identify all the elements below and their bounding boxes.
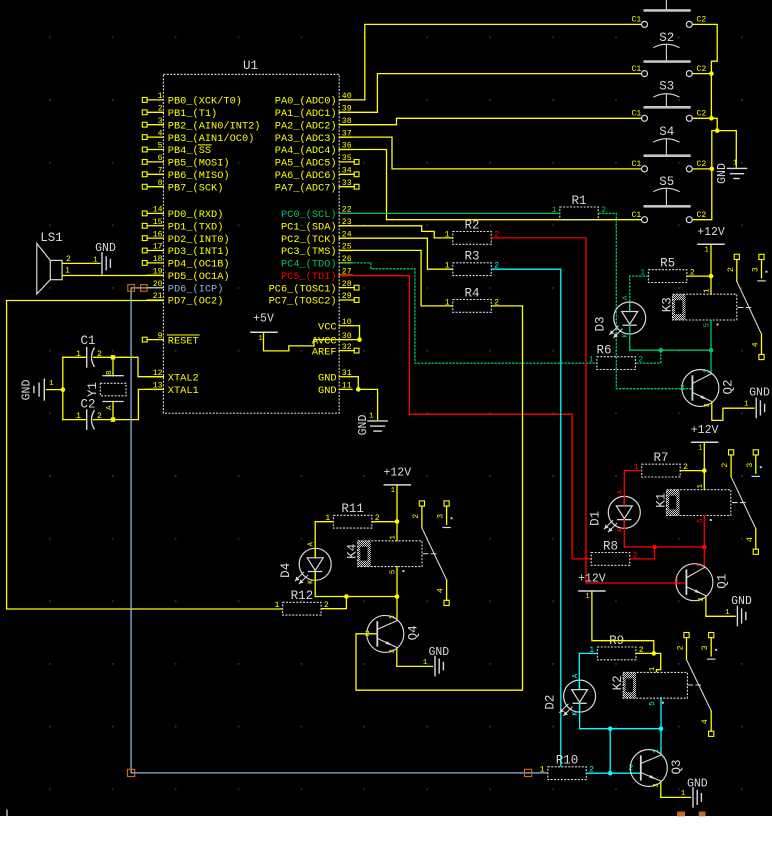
LED D1 bbox=[588, 489, 640, 532]
svg-text:1: 1 bbox=[540, 766, 545, 775]
svg-text:D4: D4 bbox=[279, 563, 293, 578]
wire D4 cathode to Q4 bbox=[315, 572, 399, 620]
U1 pin 24 PC2 bbox=[281, 230, 352, 246]
svg-text:2: 2 bbox=[412, 514, 421, 519]
wire R7 to D1 anode bbox=[624, 471, 641, 506]
svg-text:4: 4 bbox=[701, 719, 710, 724]
selection marker 3 bbox=[128, 769, 135, 776]
white status band bbox=[0, 816, 772, 847]
svg-text:R7: R7 bbox=[653, 451, 668, 465]
selection marker 2 bbox=[141, 285, 148, 292]
svg-text:1: 1 bbox=[158, 92, 163, 101]
resistor R9 bbox=[589, 634, 643, 660]
U1 pin 11 GND bbox=[318, 382, 352, 398]
svg-text:PA7_(ADC7): PA7_(ADC7) bbox=[275, 182, 337, 194]
svg-text:14: 14 bbox=[153, 206, 163, 215]
ground at Q4 bbox=[423, 646, 449, 676]
wire Q4 emitter to ground bbox=[397, 649, 433, 667]
svg-text:S3: S3 bbox=[659, 80, 674, 94]
svg-text:3: 3 bbox=[746, 463, 755, 468]
resistor R3 bbox=[445, 250, 499, 276]
svg-text:1: 1 bbox=[583, 551, 588, 560]
svg-text:2: 2 bbox=[674, 578, 679, 587]
U1 pin 26 PC4 bbox=[281, 255, 352, 271]
svg-text:PD2_(INT0): PD2_(INT0) bbox=[168, 234, 230, 246]
svg-text:Q4: Q4 bbox=[406, 625, 420, 640]
wire PC0 SCL to R1 bbox=[339, 212, 560, 214]
svg-text:3: 3 bbox=[752, 267, 761, 272]
U1 pin 35 PA5 bbox=[275, 154, 359, 170]
wire switch common rail bbox=[692, 24, 719, 219]
svg-text:PA1_(ADC1): PA1_(ADC1) bbox=[275, 108, 337, 120]
svg-text:2: 2 bbox=[365, 630, 370, 639]
U1 pin 30 AVCC bbox=[312, 332, 352, 348]
svg-text:+12V: +12V bbox=[383, 466, 411, 479]
svg-text:C1: C1 bbox=[631, 65, 641, 74]
svg-text:R1: R1 bbox=[572, 194, 587, 208]
wire Q2 emitter to ground bbox=[712, 403, 755, 421]
svg-text:Q2: Q2 bbox=[721, 379, 735, 394]
relay K4 contacts bbox=[412, 501, 453, 606]
U1 pin 19 PD5 bbox=[147, 267, 229, 283]
IC U1 body bbox=[163, 59, 339, 413]
resistor R8 bbox=[583, 539, 637, 565]
svg-text:GND: GND bbox=[687, 778, 708, 791]
svg-text:31: 31 bbox=[342, 369, 352, 378]
transistor Q4 bbox=[365, 615, 420, 653]
+12V power port K3 is above (shared) bbox=[0, 0, 1, 1]
relay K3 contacts bbox=[727, 254, 768, 359]
U1 pin 34 PA6 bbox=[275, 167, 359, 183]
svg-text:R6: R6 bbox=[596, 344, 611, 358]
svg-text:GND: GND bbox=[21, 380, 34, 401]
svg-text:6: 6 bbox=[158, 154, 163, 163]
svg-text:33: 33 bbox=[342, 179, 352, 188]
U1 pin 40 PA0 bbox=[275, 92, 352, 108]
svg-text:PD7_(OC2): PD7_(OC2) bbox=[168, 296, 224, 308]
svg-text:R10: R10 bbox=[556, 754, 579, 768]
svg-text:1: 1 bbox=[698, 445, 702, 453]
wire PA3 to S4 bbox=[339, 137, 641, 169]
svg-text:1: 1 bbox=[733, 159, 737, 167]
svg-text:1: 1 bbox=[65, 266, 70, 275]
svg-text:C2: C2 bbox=[697, 211, 707, 220]
svg-text:AREF: AREF bbox=[312, 346, 337, 358]
wire +5V to VCC/AVCC bbox=[264, 326, 362, 351]
wire PA1 to S2 bbox=[339, 74, 641, 113]
wire PC4 TDO to R6 bbox=[339, 263, 597, 363]
U1 pin 36 PA4 bbox=[275, 142, 352, 158]
wire R4 to Q4 base bbox=[356, 306, 523, 690]
U1 pin 39 PA1 bbox=[275, 105, 352, 121]
svg-text:1: 1 bbox=[259, 335, 263, 343]
svg-text:LS1: LS1 bbox=[40, 231, 63, 245]
svg-text:Y1: Y1 bbox=[86, 382, 100, 397]
svg-text:5: 5 bbox=[697, 518, 705, 523]
speaker LS1 bbox=[37, 231, 71, 294]
svg-text:GND: GND bbox=[318, 385, 337, 397]
svg-text:1: 1 bbox=[681, 790, 686, 798]
svg-text:R4: R4 bbox=[465, 286, 480, 300]
wire +12V to R7/K1 bbox=[680, 442, 706, 473]
svg-text:R2: R2 bbox=[465, 218, 480, 232]
svg-text:4: 4 bbox=[752, 342, 761, 347]
svg-text:C2: C2 bbox=[697, 65, 707, 74]
U1 pin 27 PC5 bbox=[281, 267, 352, 283]
transistor Q2 bbox=[680, 369, 735, 407]
U1 pin 31 GND bbox=[318, 369, 352, 385]
svg-text:PA0_(ADC0): PA0_(ADC0) bbox=[275, 96, 337, 108]
svg-text:D1: D1 bbox=[588, 511, 602, 526]
capacitor C1 bbox=[76, 334, 102, 367]
U1 pin 28 PC6 bbox=[269, 280, 359, 296]
svg-text:3: 3 bbox=[389, 649, 397, 653]
wire R1 to Q2 base bbox=[598, 213, 692, 388]
svg-text:34: 34 bbox=[342, 167, 352, 176]
wire D3 cathode to Q2 bbox=[630, 325, 714, 373]
U1 pin 3 PB2 bbox=[142, 117, 260, 132]
resistor R11 bbox=[325, 502, 379, 528]
ground at LS1 bbox=[93, 242, 116, 274]
svg-text:VCC: VCC bbox=[318, 321, 337, 333]
relay K3 bbox=[661, 288, 737, 328]
wire R11 to D4 anode bbox=[315, 522, 333, 558]
svg-text:4: 4 bbox=[746, 537, 755, 542]
svg-text:S5: S5 bbox=[659, 175, 674, 189]
svg-text:PC2_(TCK): PC2_(TCK) bbox=[281, 234, 337, 246]
svg-text:2: 2 bbox=[158, 105, 163, 114]
svg-text:D3: D3 bbox=[594, 316, 608, 331]
U1 pin 18 PD4 bbox=[142, 255, 229, 271]
svg-text:1: 1 bbox=[725, 609, 730, 617]
svg-text:+12V: +12V bbox=[697, 226, 725, 239]
svg-text:5: 5 bbox=[704, 323, 712, 328]
ground below U1 bbox=[357, 413, 387, 436]
svg-text:3: 3 bbox=[158, 117, 163, 126]
wire K2 coil bbox=[654, 653, 661, 728]
svg-text:5: 5 bbox=[649, 701, 657, 706]
wire K1 coil bbox=[703, 471, 705, 547]
svg-text:PB0_(XCK/T0): PB0_(XCK/T0) bbox=[168, 96, 242, 108]
svg-text:5: 5 bbox=[390, 569, 398, 574]
svg-text:PD0_(RXD): PD0_(RXD) bbox=[168, 209, 224, 221]
wire R9 to D2 anode bbox=[579, 653, 597, 689]
svg-text:GND: GND bbox=[95, 242, 116, 255]
wire PA0 to S1 bbox=[339, 24, 641, 100]
svg-text:GND: GND bbox=[749, 386, 770, 399]
svg-text:GND: GND bbox=[731, 595, 752, 608]
U1 pin 33 PA7 bbox=[275, 179, 359, 195]
U1 pin 10 VCC bbox=[318, 318, 352, 334]
svg-text:28: 28 bbox=[342, 280, 352, 289]
U1 pin 29 PC7 bbox=[269, 292, 359, 308]
switch S3 bbox=[631, 80, 706, 122]
capacitor C2 bbox=[76, 398, 102, 430]
svg-text:PB2_(AIN0/INT2): PB2_(AIN0/INT2) bbox=[168, 120, 261, 132]
svg-text:2: 2 bbox=[680, 384, 685, 393]
U1 pin 8 PB7 bbox=[142, 179, 223, 195]
ground at crystal bbox=[21, 379, 55, 400]
svg-text:1: 1 bbox=[49, 380, 54, 388]
wire K3 coil bbox=[710, 276, 712, 350]
svg-text:1: 1 bbox=[390, 535, 398, 540]
svg-text:2: 2 bbox=[677, 645, 686, 650]
wire PC5 TDI to R8 bbox=[339, 276, 591, 559]
wire PD6 ICP net (pale blue) bbox=[131, 288, 548, 773]
svg-text:C1: C1 bbox=[631, 16, 641, 25]
svg-text:3: 3 bbox=[437, 514, 446, 519]
U1 pin 32 AREF bbox=[312, 343, 359, 359]
svg-text:GND: GND bbox=[428, 646, 449, 659]
wire R3 to R10 bbox=[491, 269, 561, 766]
resistor R2 bbox=[445, 218, 499, 244]
svg-text:+12V: +12V bbox=[578, 573, 606, 586]
svg-text:XTAL1: XTAL1 bbox=[168, 385, 199, 397]
svg-text:4: 4 bbox=[437, 588, 446, 593]
switch S2 bbox=[631, 31, 706, 77]
svg-text:21: 21 bbox=[153, 292, 163, 301]
U1 pin 37 PA3 bbox=[275, 129, 352, 145]
wire LS1 pin1 to U1 pin19 bbox=[62, 275, 163, 277]
U1 pin 1 PB0 bbox=[142, 92, 242, 108]
svg-text:1: 1 bbox=[274, 601, 279, 610]
svg-text:PB4_(SS: PB4_(SS bbox=[168, 145, 211, 157]
U1 pin 5 PB4 bbox=[142, 142, 211, 158]
wire U1 GND pins to ground bbox=[352, 377, 378, 421]
svg-text:PD4_(OC1B): PD4_(OC1B) bbox=[168, 259, 230, 271]
svg-text:Q3: Q3 bbox=[670, 759, 684, 774]
svg-text:U1: U1 bbox=[243, 59, 258, 73]
svg-text:8: 8 bbox=[158, 179, 163, 188]
svg-text:PA6_(ADC6): PA6_(ADC6) bbox=[275, 170, 337, 182]
wire R10 to Q3 base bbox=[586, 771, 641, 776]
relay K2 bbox=[611, 666, 687, 706]
resistor R12 bbox=[274, 589, 328, 615]
selection marker 1 bbox=[128, 285, 135, 292]
svg-text:PA2_(ADC2): PA2_(ADC2) bbox=[275, 120, 337, 132]
wire +12V to R11/K4 bbox=[372, 485, 399, 524]
svg-text:C1: C1 bbox=[631, 160, 641, 169]
svg-text:3: 3 bbox=[704, 403, 712, 407]
wire +12V to R5/K3 bbox=[687, 245, 713, 278]
svg-text:1: 1 bbox=[703, 369, 711, 373]
svg-text:1: 1 bbox=[589, 356, 594, 365]
U1 pin 21 PD7 bbox=[147, 292, 223, 308]
svg-text:XTAL2: XTAL2 bbox=[168, 372, 199, 384]
resistor R7 bbox=[634, 451, 688, 477]
svg-text:K2: K2 bbox=[611, 675, 625, 690]
resistor R10 bbox=[540, 754, 594, 780]
svg-text:10: 10 bbox=[342, 318, 352, 327]
svg-text:17: 17 bbox=[153, 243, 163, 252]
svg-text:35: 35 bbox=[342, 154, 352, 163]
svg-text:K1: K1 bbox=[655, 493, 669, 508]
svg-text:3: 3 bbox=[698, 597, 706, 601]
svg-text:S4: S4 bbox=[659, 125, 674, 139]
wire U1 pin21 loop to R12 bbox=[7, 301, 283, 610]
wire LS1 pin2 to ground bbox=[62, 262, 100, 264]
svg-text:C2: C2 bbox=[697, 110, 707, 119]
svg-text:GND: GND bbox=[716, 163, 729, 184]
svg-text:3: 3 bbox=[653, 783, 661, 787]
svg-text:2: 2 bbox=[727, 267, 736, 272]
ground at Q3 bbox=[681, 778, 708, 807]
svg-text:1: 1 bbox=[585, 593, 589, 601]
svg-text:PD5_(OC1A): PD5_(OC1A) bbox=[168, 271, 230, 283]
svg-text:1: 1 bbox=[391, 487, 395, 495]
wire crystal network bbox=[46, 355, 163, 422]
transistor Q3 bbox=[628, 749, 683, 787]
svg-text:1: 1 bbox=[704, 288, 712, 293]
svg-text:R3: R3 bbox=[465, 250, 480, 264]
svg-text:PB5_(MOSI): PB5_(MOSI) bbox=[168, 158, 230, 170]
selection mark bottom 2 bbox=[699, 812, 706, 817]
svg-text:29: 29 bbox=[342, 292, 352, 301]
resistor R4 bbox=[445, 286, 499, 312]
transistor Q1 bbox=[674, 563, 729, 601]
U1 pin 17 PD3 bbox=[142, 243, 229, 259]
svg-text:7: 7 bbox=[158, 167, 163, 176]
resistor R5 bbox=[640, 257, 694, 283]
wire PA2 to S3 bbox=[339, 118, 641, 124]
resistor R1 bbox=[552, 194, 606, 220]
U1 pin 15 PD1 bbox=[142, 218, 223, 234]
wire +12V to R9/K2 bbox=[592, 591, 656, 656]
svg-text:1: 1 bbox=[423, 659, 428, 667]
selection mark bottom 1 bbox=[677, 812, 685, 817]
svg-text:R5: R5 bbox=[660, 257, 675, 271]
wire rail to ground bbox=[717, 131, 736, 168]
svg-text:PB7_(SCK): PB7_(SCK) bbox=[168, 182, 224, 194]
U1 pin 2 PB1 bbox=[142, 105, 217, 121]
svg-text:15: 15 bbox=[153, 218, 163, 227]
svg-text:4: 4 bbox=[158, 129, 163, 138]
LED D4 bbox=[279, 541, 331, 584]
svg-text:5: 5 bbox=[158, 142, 163, 151]
svg-text:1: 1 bbox=[653, 749, 661, 753]
svg-text:K3: K3 bbox=[661, 297, 675, 312]
svg-text:PB3_(AIN1/OC0): PB3_(AIN1/OC0) bbox=[168, 133, 255, 145]
svg-text:C1: C1 bbox=[631, 211, 641, 220]
svg-text:C2: C2 bbox=[697, 160, 707, 169]
U1 pin 13 XTAL1 bbox=[147, 382, 199, 398]
U1 pin 6 PB5 bbox=[142, 154, 229, 170]
svg-text:R8: R8 bbox=[603, 539, 618, 553]
U1 pin 22 PC0 bbox=[281, 206, 352, 222]
U1 pin 9 RESET bbox=[142, 332, 199, 348]
wire D1 cathode to Q1 bbox=[624, 520, 706, 568]
U1 pin 12 XTAL2 bbox=[147, 369, 199, 385]
U1 pin 38 PA2 bbox=[275, 117, 352, 132]
relay K4 bbox=[346, 535, 422, 575]
+12V power port K2 bbox=[578, 573, 606, 602]
svg-text:PC5_(TDI): PC5_(TDI) bbox=[281, 271, 337, 283]
svg-text:GND: GND bbox=[357, 415, 370, 436]
svg-text:C2: C2 bbox=[697, 16, 707, 25]
LED D3 bbox=[594, 295, 646, 338]
crystal Y1 bbox=[86, 370, 126, 410]
relay K1 bbox=[655, 484, 731, 524]
+5V power port bbox=[251, 313, 277, 344]
svg-text:D2: D2 bbox=[544, 695, 558, 710]
svg-text:1: 1 bbox=[389, 615, 397, 619]
svg-text:PD3_(INT1): PD3_(INT1) bbox=[168, 246, 230, 258]
LED D2 bbox=[544, 673, 596, 716]
svg-text:GND: GND bbox=[318, 372, 337, 384]
svg-text:PB6_(MISO): PB6_(MISO) bbox=[168, 170, 230, 182]
+12V power port top right bbox=[697, 226, 725, 255]
wire PC3 TMS to R4 bbox=[339, 250, 453, 306]
relay K2 contacts bbox=[677, 633, 718, 737]
svg-text:PA3_(ADC3): PA3_(ADC3) bbox=[275, 133, 337, 145]
U1 pin 20 PD6 bbox=[147, 280, 223, 296]
+12V power port K1 bbox=[691, 424, 719, 453]
wire R2 to Q1 base bbox=[491, 238, 686, 583]
U1 pin 7 PB6 bbox=[142, 167, 229, 183]
selection marker 4 bbox=[525, 769, 532, 776]
wire Q3 emitter to ground bbox=[661, 782, 691, 797]
ground at switches bbox=[716, 159, 747, 184]
+12V power port K4 bbox=[383, 466, 411, 495]
switch S5 bbox=[631, 175, 706, 223]
U1 pin 14 PD0 bbox=[142, 206, 223, 222]
switch S1 (partial) bbox=[631, 0, 706, 27]
wire R5 to D3 anode bbox=[630, 276, 649, 311]
resistor R6 bbox=[589, 344, 643, 370]
relay K1 contacts bbox=[721, 450, 762, 555]
svg-text:PC0_(SCL): PC0_(SCL) bbox=[281, 209, 337, 221]
svg-text:PC3_(TMS): PC3_(TMS) bbox=[281, 246, 337, 258]
svg-text:11: 11 bbox=[342, 382, 352, 391]
U1 pin 16 PD2 bbox=[142, 230, 229, 246]
wire K4 coil bbox=[396, 522, 398, 597]
svg-text:18: 18 bbox=[153, 255, 163, 264]
svg-text:1: 1 bbox=[744, 401, 749, 409]
svg-text:PB1_(T1): PB1_(T1) bbox=[168, 108, 217, 120]
U1 pin 4 PB3 bbox=[142, 129, 254, 145]
svg-text:PC4_(TDO): PC4_(TDO) bbox=[281, 259, 337, 271]
svg-text:PD1_(TXD): PD1_(TXD) bbox=[168, 221, 224, 233]
wire PA4 to S5 bbox=[339, 150, 641, 220]
svg-text:1: 1 bbox=[705, 247, 709, 255]
svg-text:32: 32 bbox=[342, 343, 352, 352]
svg-text:R11: R11 bbox=[341, 502, 364, 516]
wire PC1 SDA to R2 bbox=[339, 226, 453, 238]
svg-text:C1: C1 bbox=[631, 110, 641, 119]
svg-text:PA5_(ADC5): PA5_(ADC5) bbox=[275, 158, 337, 170]
svg-text:3: 3 bbox=[701, 645, 710, 650]
svg-text:9: 9 bbox=[158, 332, 163, 341]
svg-text:2: 2 bbox=[628, 764, 633, 773]
wire PC2 TCK to R3 bbox=[339, 238, 453, 269]
svg-text:1: 1 bbox=[649, 666, 657, 671]
svg-text:PC1_(SDA): PC1_(SDA) bbox=[281, 221, 337, 233]
svg-text:PA4_(ADC4): PA4_(ADC4) bbox=[275, 145, 337, 157]
svg-text:+12V: +12V bbox=[691, 424, 719, 437]
svg-text:16: 16 bbox=[153, 230, 163, 239]
U1 pin 25 PC3 bbox=[281, 243, 352, 259]
scrollbar mark left bbox=[6, 810, 8, 817]
svg-text:PC7_(TOSC2): PC7_(TOSC2) bbox=[269, 296, 337, 308]
wire D2 cathode to Q3 bbox=[580, 703, 664, 773]
svg-text:Q1: Q1 bbox=[715, 574, 729, 589]
svg-text:RESET: RESET bbox=[168, 335, 199, 347]
svg-text:R12: R12 bbox=[291, 589, 314, 603]
svg-text:1: 1 bbox=[696, 563, 704, 567]
svg-text:2: 2 bbox=[721, 463, 730, 468]
svg-text:PC6_(TOSC1): PC6_(TOSC1) bbox=[269, 283, 337, 295]
svg-text:C1: C1 bbox=[80, 334, 95, 348]
